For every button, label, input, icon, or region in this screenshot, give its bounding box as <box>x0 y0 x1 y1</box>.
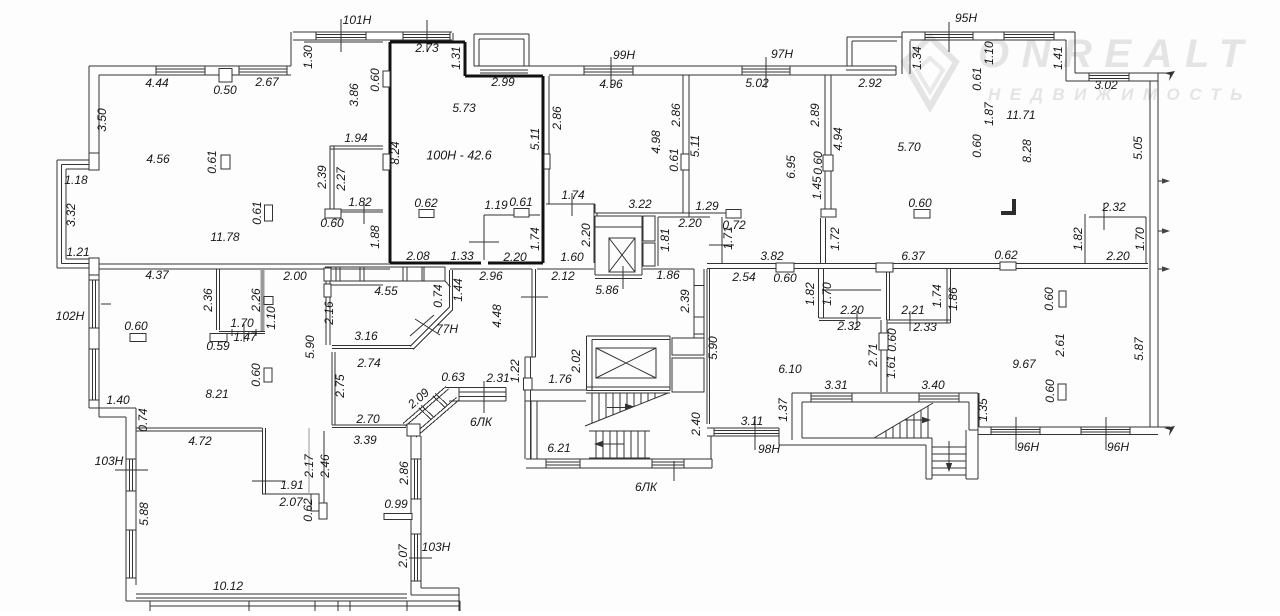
svg-text:5.88: 5.88 <box>137 502 151 526</box>
svg-text:2.96: 2.96 <box>478 269 503 283</box>
svg-text:8.21: 8.21 <box>205 387 228 401</box>
svg-text:1.72: 1.72 <box>828 227 842 251</box>
svg-text:0.61: 0.61 <box>667 148 681 171</box>
svg-text:6.10: 6.10 <box>778 362 802 376</box>
svg-text:1.70: 1.70 <box>230 316 254 330</box>
svg-text:0.62: 0.62 <box>301 498 315 522</box>
svg-text:1.61: 1.61 <box>884 355 898 378</box>
svg-text:1.74: 1.74 <box>930 284 944 308</box>
svg-text:2.21: 2.21 <box>900 303 924 317</box>
svg-text:2.26: 2.26 <box>249 288 263 313</box>
svg-text:100Н - 42.6: 100Н - 42.6 <box>426 148 491 162</box>
svg-text:2.46: 2.46 <box>318 454 332 479</box>
svg-text:5.87: 5.87 <box>1132 336 1146 361</box>
svg-text:2.54: 2.54 <box>731 270 756 284</box>
svg-text:1.86: 1.86 <box>946 287 960 311</box>
svg-text:5.11: 5.11 <box>528 128 542 150</box>
svg-text:3.16: 3.16 <box>354 329 378 343</box>
svg-text:5.73: 5.73 <box>452 101 476 115</box>
svg-text:103Н: 103Н <box>95 454 124 468</box>
svg-text:0.60: 0.60 <box>124 319 148 333</box>
svg-text:5.02: 5.02 <box>745 76 769 90</box>
svg-text:0.50: 0.50 <box>213 83 237 97</box>
svg-text:1.33: 1.33 <box>450 249 474 263</box>
svg-text:0.60: 0.60 <box>1042 287 1056 311</box>
svg-text:4.94: 4.94 <box>831 127 845 151</box>
svg-text:2.39: 2.39 <box>678 289 692 314</box>
svg-text:96Н: 96Н <box>1017 440 1039 454</box>
svg-text:1.40: 1.40 <box>106 393 130 407</box>
svg-text:2.33: 2.33 <box>912 320 937 334</box>
svg-text:2.89: 2.89 <box>808 103 822 128</box>
svg-text:1.29: 1.29 <box>695 199 719 213</box>
svg-text:4.98: 4.98 <box>649 130 663 154</box>
svg-text:2.92: 2.92 <box>857 76 882 90</box>
svg-text:2.12: 2.12 <box>550 269 575 283</box>
svg-text:9.67: 9.67 <box>1012 357 1037 371</box>
svg-text:0.61: 0.61 <box>205 150 219 173</box>
svg-text:0.60: 0.60 <box>773 271 797 285</box>
svg-text:2.08: 2.08 <box>405 249 430 263</box>
svg-text:2.07: 2.07 <box>396 543 410 569</box>
svg-text:2.00: 2.00 <box>282 269 307 283</box>
svg-text:0.62: 0.62 <box>994 248 1018 262</box>
svg-text:0.74: 0.74 <box>136 408 150 432</box>
svg-text:2.70: 2.70 <box>355 412 380 426</box>
svg-text:96Н: 96Н <box>1107 440 1129 454</box>
svg-text:102Н: 102Н <box>56 309 85 323</box>
svg-text:0.61: 0.61 <box>970 67 984 90</box>
svg-text:2.40: 2.40 <box>689 412 703 437</box>
svg-text:101Н: 101Н <box>343 13 372 27</box>
svg-text:1.41: 1.41 <box>1051 46 1065 69</box>
svg-text:0.63: 0.63 <box>441 370 465 384</box>
svg-text:2.16: 2.16 <box>322 301 336 326</box>
svg-text:4.56: 4.56 <box>146 152 170 166</box>
svg-text:0.60: 0.60 <box>249 363 263 387</box>
svg-text:6.95: 6.95 <box>784 155 798 179</box>
svg-text:1.21: 1.21 <box>66 245 89 259</box>
svg-text:0.61: 0.61 <box>250 201 264 224</box>
svg-text:2.86: 2.86 <box>669 103 683 128</box>
svg-text:1.60: 1.60 <box>560 250 584 264</box>
svg-text:97Н: 97Н <box>771 47 793 61</box>
svg-text:3.22: 3.22 <box>628 197 652 211</box>
svg-text:1.91: 1.91 <box>280 478 303 492</box>
svg-text:2.07: 2.07 <box>278 495 304 509</box>
svg-text:5.90: 5.90 <box>706 336 720 360</box>
svg-text:1.35: 1.35 <box>976 398 990 422</box>
svg-text:1.47: 1.47 <box>233 330 258 344</box>
svg-text:1.10: 1.10 <box>264 306 278 330</box>
svg-text:2.99: 2.99 <box>490 75 515 89</box>
svg-text:8.24: 8.24 <box>388 141 402 165</box>
svg-text:3.32: 3.32 <box>64 203 78 227</box>
svg-text:0.60: 0.60 <box>908 196 932 210</box>
svg-text:4.72: 4.72 <box>188 434 212 448</box>
svg-text:НЕДВИЖИМОСТЬ: НЕДВИЖИМОСТЬ <box>988 85 1252 104</box>
svg-text:3.31: 3.31 <box>824 378 847 392</box>
svg-text:103Н: 103Н <box>422 540 451 554</box>
svg-text:1.10: 1.10 <box>982 41 996 65</box>
svg-text:4.44: 4.44 <box>145 76 169 90</box>
svg-text:0.74: 0.74 <box>431 284 445 308</box>
svg-text:1.76: 1.76 <box>548 372 572 386</box>
svg-text:1.30: 1.30 <box>301 45 315 69</box>
svg-text:6.21: 6.21 <box>547 441 570 455</box>
svg-text:11.71: 11.71 <box>1006 108 1035 122</box>
svg-text:11.78: 11.78 <box>210 230 239 244</box>
svg-text:0.60: 0.60 <box>1043 379 1057 403</box>
svg-text:5.11: 5.11 <box>688 135 702 157</box>
svg-text:1.19: 1.19 <box>484 198 508 212</box>
svg-text:0.61: 0.61 <box>509 195 532 209</box>
svg-text:0.60: 0.60 <box>811 151 825 175</box>
svg-text:0.60: 0.60 <box>885 328 899 352</box>
svg-text:2.02: 2.02 <box>569 349 583 374</box>
svg-text:4.96: 4.96 <box>599 77 623 91</box>
svg-text:2.20: 2.20 <box>839 303 864 317</box>
svg-text:3.50: 3.50 <box>95 108 109 132</box>
svg-text:95Н: 95Н <box>955 11 977 25</box>
svg-text:1.18: 1.18 <box>64 173 88 187</box>
svg-text:3.02: 3.02 <box>1094 78 1118 92</box>
svg-text:5.70: 5.70 <box>897 140 921 154</box>
svg-text:1.94: 1.94 <box>344 131 368 145</box>
svg-text:1.86: 1.86 <box>656 268 680 282</box>
svg-text:2.74: 2.74 <box>356 356 381 370</box>
svg-text:2.75: 2.75 <box>333 374 347 399</box>
svg-text:1.22: 1.22 <box>508 359 522 383</box>
svg-text:0.60: 0.60 <box>970 134 984 158</box>
svg-text:4.48: 4.48 <box>490 304 504 328</box>
svg-text:6.37: 6.37 <box>901 249 926 263</box>
svg-text:1.74: 1.74 <box>561 188 585 202</box>
svg-text:2.86: 2.86 <box>550 106 564 131</box>
svg-text:3.39: 3.39 <box>353 433 377 447</box>
svg-text:2.36: 2.36 <box>201 288 215 313</box>
svg-text:6ЛК: 6ЛК <box>635 480 658 494</box>
svg-text:1.81: 1.81 <box>658 228 672 251</box>
svg-text:1.37: 1.37 <box>776 397 790 422</box>
svg-text:77Н: 77Н <box>436 322 458 336</box>
svg-text:6ЛК: 6ЛК <box>470 415 493 429</box>
svg-text:1.82: 1.82 <box>1071 227 1085 251</box>
svg-text:1.82: 1.82 <box>803 282 817 306</box>
svg-text:98Н: 98Н <box>758 442 780 456</box>
svg-text:2.73: 2.73 <box>414 41 439 55</box>
svg-text:2.20: 2.20 <box>502 250 527 264</box>
svg-text:1.31: 1.31 <box>449 46 463 69</box>
svg-text:1.34: 1.34 <box>910 46 924 70</box>
svg-text:1.74: 1.74 <box>528 227 542 251</box>
svg-text:1.70: 1.70 <box>820 282 834 306</box>
svg-text:2.27: 2.27 <box>334 166 348 192</box>
svg-text:1.44: 1.44 <box>451 278 465 302</box>
svg-text:2.39: 2.39 <box>315 165 329 190</box>
svg-text:0.60: 0.60 <box>320 216 344 230</box>
svg-text:3.82: 3.82 <box>760 249 784 263</box>
svg-text:3.86: 3.86 <box>347 83 361 107</box>
svg-text:2.17: 2.17 <box>302 453 316 479</box>
svg-text:2.86: 2.86 <box>397 461 411 486</box>
svg-text:2.20: 2.20 <box>677 216 702 230</box>
svg-text:2.32: 2.32 <box>1101 200 1126 214</box>
svg-text:0.59: 0.59 <box>206 339 230 353</box>
svg-text:0.60: 0.60 <box>368 68 382 92</box>
svg-text:5.05: 5.05 <box>1131 136 1145 160</box>
svg-text:8.28: 8.28 <box>1020 139 1034 163</box>
svg-text:2.67: 2.67 <box>254 75 280 89</box>
svg-text:3.11: 3.11 <box>741 414 763 428</box>
svg-text:1.87: 1.87 <box>982 101 996 126</box>
svg-text:2.31: 2.31 <box>485 371 509 385</box>
svg-text:2.32: 2.32 <box>836 319 861 333</box>
svg-text:4.55: 4.55 <box>374 284 398 298</box>
svg-text:10.12: 10.12 <box>213 579 243 593</box>
svg-text:1.88: 1.88 <box>368 225 382 249</box>
svg-text:5.86: 5.86 <box>595 283 619 297</box>
svg-text:0.62: 0.62 <box>414 196 438 210</box>
svg-text:ONREALT: ONREALT <box>978 32 1256 76</box>
svg-text:2.71: 2.71 <box>866 343 880 367</box>
svg-text:2.61: 2.61 <box>1053 333 1067 357</box>
svg-text:0.99: 0.99 <box>384 497 408 511</box>
svg-text:3.40: 3.40 <box>921 378 945 392</box>
svg-text:1.82: 1.82 <box>348 195 372 209</box>
svg-text:1.70: 1.70 <box>1133 227 1147 251</box>
svg-text:1.45: 1.45 <box>810 176 824 200</box>
svg-text:2.20: 2.20 <box>579 223 593 248</box>
svg-text:1.71: 1.71 <box>721 226 735 249</box>
svg-text:5.90: 5.90 <box>303 335 317 359</box>
svg-text:2.20: 2.20 <box>1105 249 1130 263</box>
svg-text:99Н: 99Н <box>613 48 635 62</box>
svg-text:4.37: 4.37 <box>145 268 170 282</box>
